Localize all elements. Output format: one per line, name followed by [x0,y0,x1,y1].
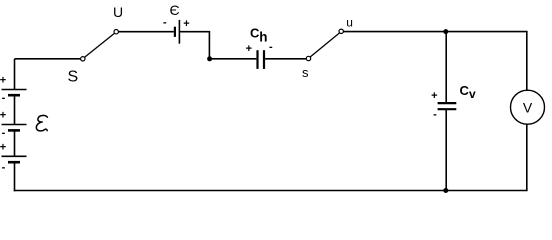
wire: battery bottom vertical [14,162,16,191]
wire: switch U to battery eps [118,31,173,33]
svg-text:+: + [183,18,189,30]
wire: battery top vertical [14,59,16,90]
wire: between cell 2 and cell 3 [14,130,16,156]
svg-text:s: s [302,65,309,80]
wire: switch u to top right corner [343,31,527,33]
svg-text:S: S [68,69,79,86]
wire: junction to capacitor Ch [210,58,257,60]
svg-text:u: u [346,16,353,30]
svg-text:+: + [0,75,6,87]
svg-text:C: C [460,83,470,98]
battery E cell 2 long plate [2,124,27,126]
capacitor Ch left plate [256,50,258,69]
svg-text:-: - [269,41,273,53]
svg-text:Є: Є [170,2,180,18]
svg-text:-: - [433,109,437,121]
svg-text:h: h [259,30,267,45]
svg-text:-: - [163,17,167,29]
battery E cell 1 long plate [2,89,27,91]
switch s upper contact [339,29,343,33]
wire: corner down to junction [208,32,210,59]
junction node dot top of Cv branch [443,29,448,34]
svg-text:+: + [246,43,252,55]
wire: capacitor Ch to switch s [265,58,306,60]
battery eps long plate [178,20,180,44]
wire: top left horizontal to switch S [15,58,81,60]
switch S upper contact [114,30,118,34]
wire: right branch lower vertical [526,124,528,191]
battery E cell 1 short plate [8,94,20,97]
wire: bottom horizontal [14,190,528,192]
wire: right branch upper vertical [526,32,528,91]
battery E script label [36,115,47,130]
junction node dot [207,56,212,61]
capacitor Cv top plate [438,102,457,104]
svg-text:-: - [2,162,6,174]
wire: Cv branch lower vertical [445,109,447,190]
svg-text:v: v [469,87,476,101]
svg-text:-: - [2,92,6,104]
switch s blade [310,33,339,57]
svg-text:+: + [0,142,6,154]
battery E cell 3 short plate [8,161,20,164]
battery E cell 3 long plate [2,155,27,157]
battery E cell 2 short plate [8,129,20,132]
junction node dot bottom of Cv branch [443,188,448,193]
wire: battery eps to corner [179,31,210,33]
capacitor Ch right plate [263,50,265,69]
wire: Cv branch upper vertical [445,32,447,103]
svg-text:V: V [523,100,533,116]
svg-text:U: U [113,4,123,20]
switch s lower contact [306,56,310,60]
switch S blade [85,33,115,57]
voltmeter V circle [511,90,545,124]
capacitor Cv bottom plate [438,108,457,110]
svg-text:+: + [431,90,437,102]
svg-text:+: + [0,110,6,122]
battery eps short plate [174,27,176,37]
svg-text:-: - [2,127,6,139]
switch S lower contact [81,57,85,61]
wire: between cell 1 and cell 2 [14,95,16,124]
